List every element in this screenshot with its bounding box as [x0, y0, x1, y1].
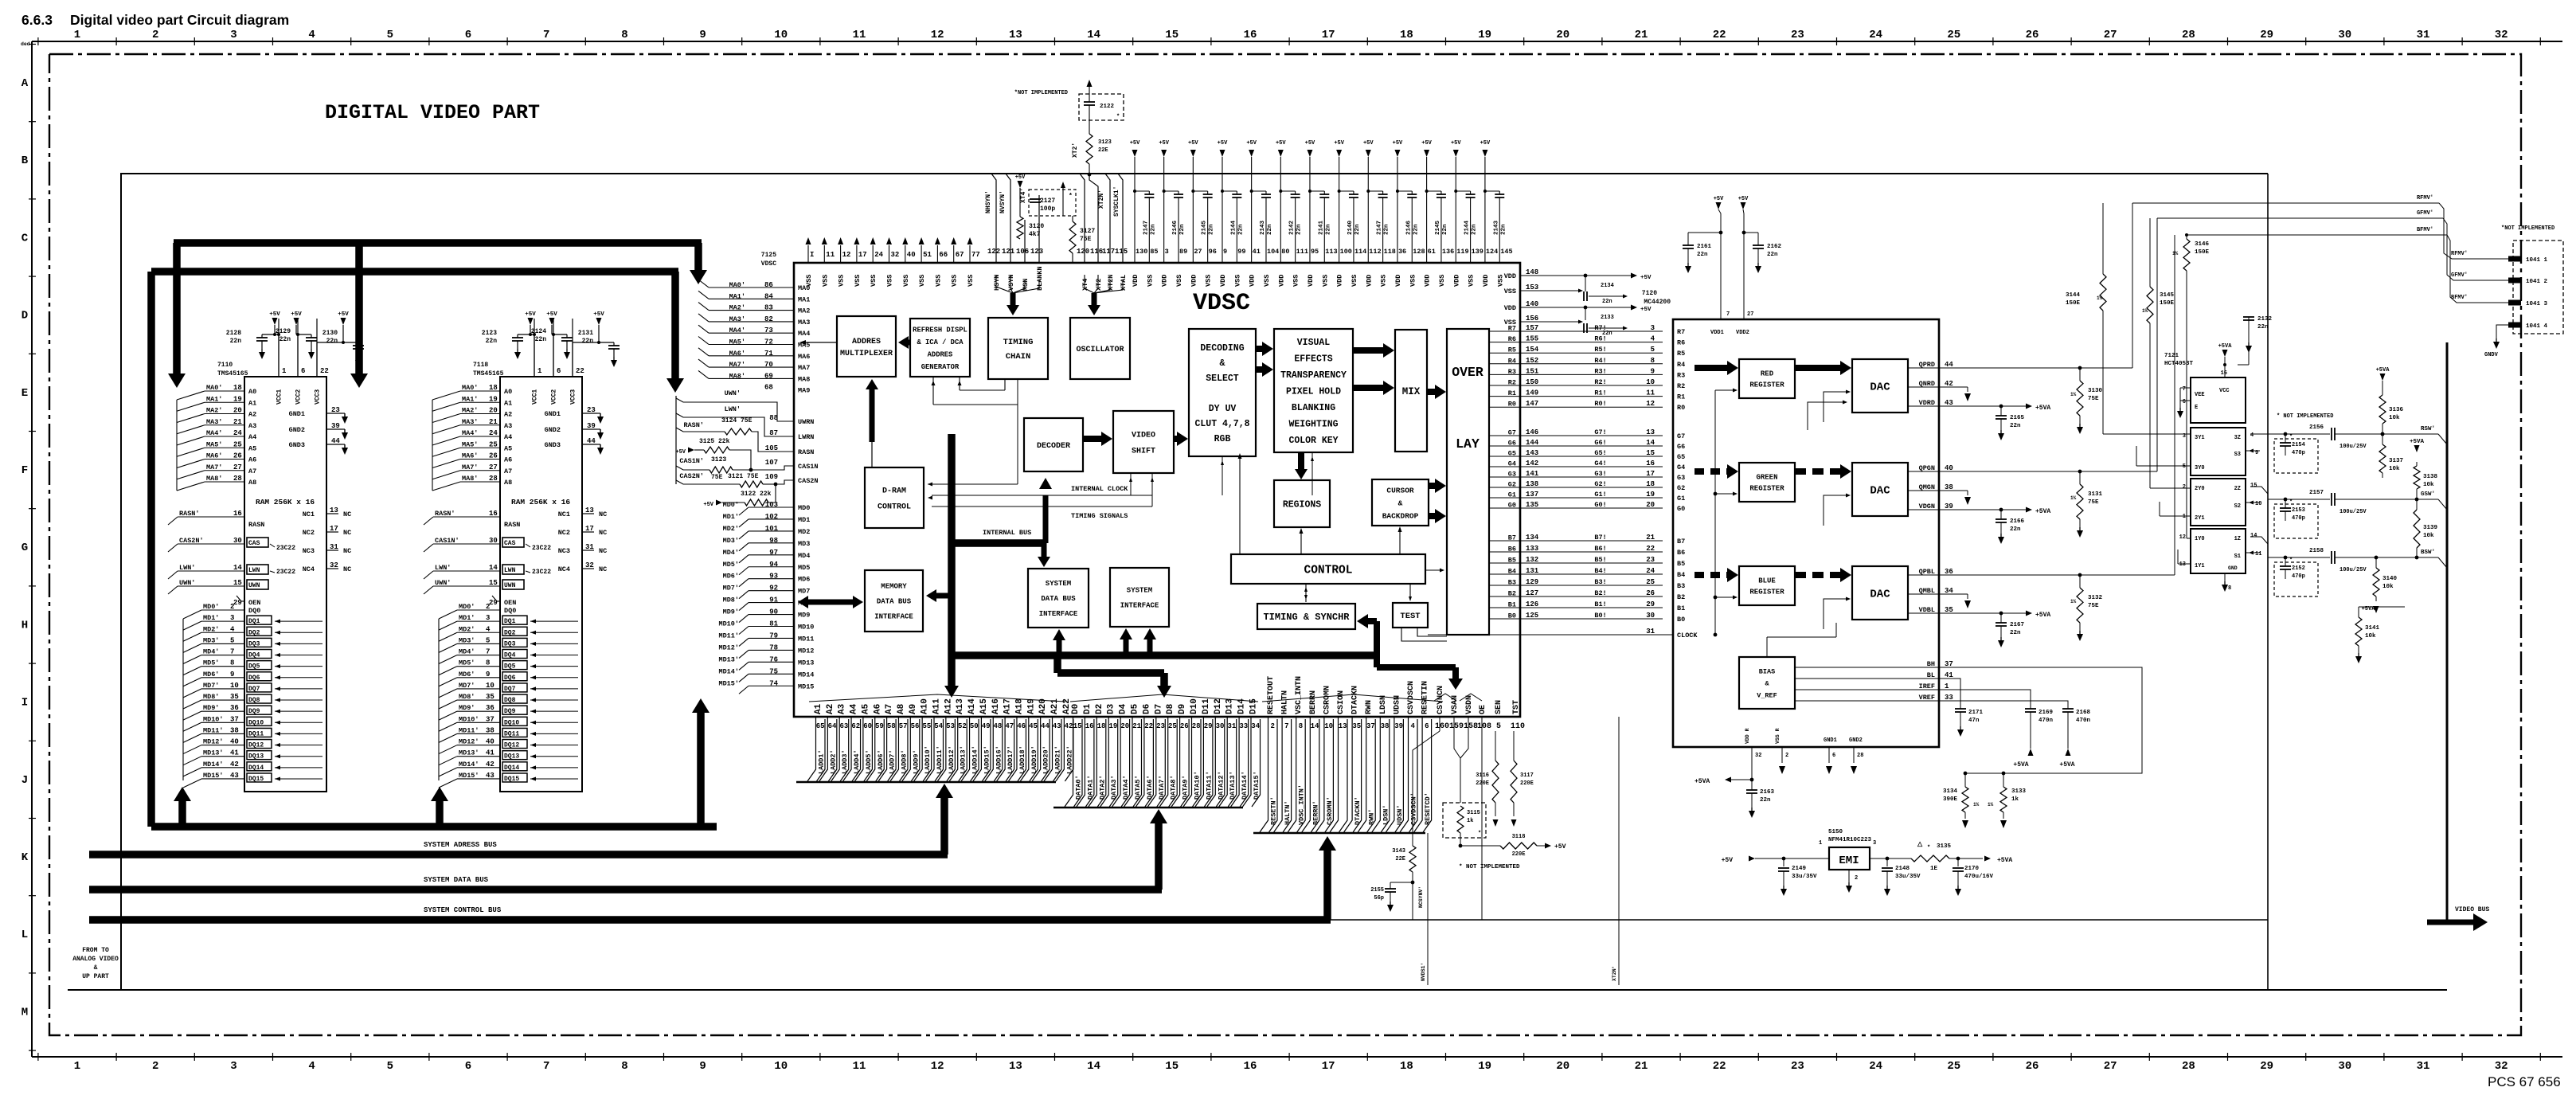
svg-text:68: 68	[764, 384, 773, 392]
svg-text:22E: 22E	[1395, 856, 1405, 862]
wire blue reg clock	[1714, 596, 1738, 600]
svg-text:VCC1: VCC1	[532, 389, 539, 405]
svg-text:G2!: G2!	[1594, 480, 1606, 488]
svg-text:OE: OE	[1479, 705, 1487, 714]
svg-text:MA5': MA5'	[206, 440, 222, 448]
caption DIGITAL VIDEO PART	[325, 101, 540, 124]
svg-text:OEN: OEN	[504, 599, 516, 607]
MC44200 right pins G	[1908, 464, 1953, 510]
svg-text:2147: 2147	[1143, 221, 1149, 235]
svg-text:3121 75E: 3121 75E	[728, 473, 759, 480]
svg-text:26: 26	[1180, 722, 1189, 730]
svg-text:D7: D7	[1154, 704, 1163, 714]
svg-text:17: 17	[585, 525, 594, 533]
svg-text:1041 1: 1041 1	[2526, 257, 2548, 264]
svg-text:VSS: VSS	[967, 275, 975, 287]
svg-text:DQ12: DQ12	[504, 742, 519, 749]
svg-text:LADD14': LADD14'	[971, 745, 979, 774]
svg-text:6: 6	[1425, 722, 1429, 730]
svg-text:MA2: MA2	[798, 307, 810, 315]
arrow oscillator feed	[1085, 275, 1123, 315]
svg-text:VDD: VDD	[1249, 275, 1257, 287]
svg-text:R6!: R6!	[1594, 335, 1606, 343]
svg-text:DATA3': DATA3'	[1110, 775, 1118, 800]
wire green reg clock	[1714, 492, 1738, 496]
svg-text:I: I	[810, 251, 814, 259]
svg-text:51: 51	[923, 251, 932, 259]
svg-text:B3: B3	[1677, 582, 1685, 590]
svg-text:DQ14: DQ14	[504, 765, 519, 772]
svg-text:BIAS: BIAS	[1759, 667, 1775, 675]
svg-text:VCC2: VCC2	[295, 389, 303, 405]
brace VSAN VSDN	[1434, 694, 1482, 701]
svg-text:GND2: GND2	[1849, 737, 1863, 744]
svg-text:MD4: MD4	[798, 552, 810, 560]
svg-text:BLUE: BLUE	[1758, 577, 1776, 585]
svg-text:VSS: VSS	[902, 275, 910, 287]
svg-text:VSS: VSS	[1351, 275, 1358, 287]
svg-text:NC: NC	[599, 565, 607, 573]
svg-text:+5VA: +5VA	[2035, 508, 2050, 515]
svg-text:+5V: +5V	[338, 311, 349, 318]
wire red reg clock	[1714, 389, 1738, 637]
svg-text:119: 119	[1456, 248, 1468, 256]
svg-text:116: 116	[1090, 248, 1103, 256]
svg-text:2: 2	[2183, 484, 2186, 491]
svg-text:+5VA: +5VA	[1695, 778, 1710, 785]
resistor 3141 10k	[2355, 557, 2405, 663]
svg-text:VDD: VDD	[1482, 275, 1490, 287]
svg-text:10k: 10k	[2365, 633, 2376, 639]
svg-text:K: K	[21, 851, 29, 864]
svg-text:9: 9	[1223, 248, 1227, 256]
svg-text:3134: 3134	[1943, 788, 1958, 795]
bus MD drop control fan	[666, 272, 684, 393]
svg-text:5: 5	[230, 636, 234, 644]
svg-text:MD0': MD0'	[203, 603, 219, 611]
svg-text:DATA7': DATA7'	[1158, 775, 1166, 800]
svg-text:26: 26	[2026, 1060, 2039, 1073]
svg-text:20: 20	[233, 407, 242, 415]
svg-text:VDD: VDD	[1307, 275, 1315, 287]
svg-text:1%: 1%	[2172, 251, 2179, 256]
svg-text:LADD2': LADD2'	[829, 749, 837, 774]
svg-text:1%: 1%	[2070, 495, 2077, 501]
svg-text:LAY: LAY	[1456, 436, 1480, 452]
arrow refresh to addres mux	[898, 336, 910, 349]
svg-text:22n: 22n	[1237, 224, 1244, 235]
svg-text:INTERFACE: INTERFACE	[1120, 602, 1159, 610]
internal bus	[944, 434, 1052, 698]
IC 7121 HCT4053T	[2164, 353, 2194, 367]
supply +5V right	[1738, 196, 1749, 213]
svg-text:3144: 3144	[2066, 292, 2081, 299]
svg-text:1k: 1k	[2011, 796, 2019, 803]
arrow bus to sysif 1	[1120, 628, 1132, 655]
svg-text:35: 35	[486, 693, 494, 701]
svg-text:RASN: RASN	[248, 521, 264, 529]
svg-text:CSVDSCN': CSVDSCN'	[1410, 792, 1418, 825]
supply +5V left	[1714, 196, 1724, 213]
mux second inputs	[2136, 446, 2191, 564]
svg-text:RASN: RASN	[798, 448, 814, 456]
svg-text:20: 20	[1556, 29, 1569, 41]
svg-text:20: 20	[1120, 722, 1129, 730]
svg-text:G0!: G0!	[1594, 501, 1606, 509]
svg-text:112: 112	[1369, 248, 1381, 256]
svg-text:DATA8': DATA8'	[1170, 775, 1178, 800]
svg-text:C: C	[21, 232, 29, 244]
svg-text:22n: 22n	[1760, 797, 1771, 804]
svg-text:XTAL: XTAL	[1120, 275, 1128, 291]
svg-text:35: 35	[1352, 722, 1361, 730]
svg-text:G3: G3	[1677, 474, 1685, 482]
svg-text:G0: G0	[1677, 505, 1685, 513]
svg-text:LWN: LWN	[504, 567, 516, 574]
arrow blue reg to dac dashed	[1795, 568, 1851, 582]
svg-text:9: 9	[1651, 367, 1655, 375]
svg-text:GENERATOR: GENERATOR	[921, 363, 960, 371]
svg-text:1041 3: 1041 3	[2526, 301, 2548, 307]
svg-text:32: 32	[2495, 29, 2508, 41]
svg-text:LADD6': LADD6'	[877, 749, 885, 774]
svg-text:VDD: VDD	[1132, 275, 1139, 287]
svg-text:MA8: MA8	[798, 375, 810, 383]
svg-text:A2: A2	[826, 704, 835, 714]
svg-text:GND3: GND3	[545, 441, 561, 449]
svg-text:7110: 7110	[217, 362, 233, 369]
wire control bus thin extension	[1331, 919, 2268, 921]
svg-text:MD12': MD12'	[203, 738, 224, 746]
arrow timing chain feed	[996, 275, 1039, 315]
svg-text:11: 11	[826, 251, 835, 259]
capacitor 2149 33u/35V	[1778, 857, 1817, 896]
svg-text:M: M	[21, 1006, 28, 1019]
svg-text:B4: B4	[1677, 571, 1685, 579]
svg-text:159: 159	[1449, 722, 1464, 731]
svg-text:+5V: +5V	[1159, 140, 1169, 147]
bus MA drop RAM2	[350, 243, 368, 388]
svg-text:+5VA: +5VA	[2059, 761, 2074, 769]
HCT4053T mux2 box	[2183, 479, 2262, 526]
svg-text:DATA4': DATA4'	[1122, 775, 1130, 800]
resistor 3130 75E	[2070, 366, 2103, 434]
svg-text:22E: 22E	[1098, 147, 1108, 154]
svg-text:22: 22	[1713, 1060, 1726, 1073]
svg-text:A7: A7	[504, 467, 512, 475]
supply +5VA vddr	[1695, 777, 1753, 786]
svg-text:29: 29	[1204, 722, 1213, 730]
svg-text:7: 7	[543, 1060, 549, 1073]
svg-text:38: 38	[230, 726, 239, 734]
svg-text:60: 60	[863, 722, 872, 730]
svg-text:GFMV': GFMV'	[2451, 272, 2468, 279]
svg-text:4: 4	[486, 625, 491, 633]
svg-text:GND1: GND1	[289, 410, 305, 418]
svg-text:41: 41	[486, 749, 494, 757]
svg-text:NC3: NC3	[558, 547, 570, 555]
svg-text:15: 15	[489, 579, 498, 587]
svg-text:VSS: VSS	[1438, 275, 1446, 287]
svg-text:RESETCD': RESETCD'	[1424, 792, 1432, 825]
arrow mix to overlay	[1427, 385, 1446, 399]
svg-text:28: 28	[1192, 722, 1201, 730]
svg-text:TMS45165: TMS45165	[217, 370, 248, 377]
svg-text:UWRN: UWRN	[798, 418, 814, 426]
svg-text:DQ11: DQ11	[248, 730, 264, 737]
svg-text:22n: 22n	[1209, 224, 1215, 235]
svg-text:DQ14: DQ14	[248, 765, 264, 772]
svg-text:CAS2N': CAS2N'	[179, 537, 204, 545]
svg-text:MC44200: MC44200	[1644, 299, 1671, 306]
bus MD left vertical	[147, 272, 155, 827]
svg-text:MD4': MD4'	[723, 549, 739, 557]
block SYSTEM DATA BUS INTERFACE	[1028, 569, 1089, 628]
svg-text:23C22: 23C22	[276, 545, 295, 552]
svg-text:115: 115	[1115, 248, 1128, 256]
svg-text:OEN: OEN	[248, 599, 260, 607]
svg-text:VSS: VSS	[838, 275, 846, 287]
svg-text:DATA1': DATA1'	[1086, 775, 1094, 800]
svg-text:+5VA: +5VA	[2410, 439, 2425, 445]
svg-text:MA3': MA3'	[462, 418, 478, 426]
capacitor 2166 22n	[1996, 510, 2025, 544]
svg-text:DAC: DAC	[1870, 588, 1890, 600]
resistor 3121 75E	[676, 472, 794, 487]
RAM 7118 TMS45165	[473, 319, 607, 792]
svg-text:18: 18	[1646, 480, 1655, 488]
wire test outputs	[1401, 628, 1447, 641]
svg-text:A6: A6	[504, 456, 512, 464]
svg-text:MD2: MD2	[798, 528, 810, 536]
svg-text:+5VA: +5VA	[2035, 612, 2050, 619]
svg-text:VDSC: VDSC	[1193, 290, 1250, 317]
svg-text:D14: D14	[1237, 698, 1247, 714]
wire RFMV	[2132, 195, 2508, 259]
svg-text:6: 6	[301, 367, 305, 375]
svg-text:13: 13	[330, 506, 338, 514]
svg-text:75E: 75E	[2088, 499, 2099, 506]
svg-text:G1: G1	[1677, 495, 1685, 503]
svg-text:150E: 150E	[2195, 249, 2210, 256]
resistor 3135 1E	[1911, 841, 1983, 872]
svg-text:RASN': RASN'	[683, 421, 704, 429]
supply +5VA emi out	[1984, 856, 2012, 865]
wire visual clocks	[1290, 452, 1314, 495]
svg-text:B2: B2	[1677, 593, 1685, 601]
wire LWN	[676, 405, 794, 436]
svg-text:7: 7	[543, 29, 549, 41]
svg-text:3: 3	[1651, 324, 1655, 332]
svg-text:46: 46	[1017, 722, 1026, 730]
svg-text:2: 2	[230, 603, 234, 611]
bus system control	[89, 916, 1331, 924]
svg-text:75E: 75E	[2088, 603, 2099, 609]
svg-text:+5V: +5V	[1722, 857, 1734, 864]
svg-text:2131: 2131	[578, 330, 593, 337]
svg-text:43: 43	[486, 772, 494, 780]
svg-text:64: 64	[828, 722, 837, 730]
wire BSW row	[2250, 537, 2447, 573]
svg-text:LADD10': LADD10'	[924, 745, 932, 774]
svg-text:30: 30	[1646, 612, 1655, 620]
svg-text:D3: D3	[1107, 703, 1116, 714]
DAC red	[1852, 359, 1908, 413]
svg-text:MD0': MD0'	[723, 501, 739, 509]
svg-text:3125 22k: 3125 22k	[699, 438, 730, 445]
svg-text:12: 12	[1646, 400, 1655, 408]
svg-text:DATA14': DATA14'	[1241, 771, 1249, 800]
svg-text:LWN': LWN'	[725, 405, 741, 413]
svg-text:VDD: VDD	[1452, 275, 1460, 287]
arrow colorkey to regions	[1295, 452, 1308, 479]
svg-text:D13: D13	[1225, 698, 1235, 714]
svg-text:+5V: +5V	[1188, 140, 1198, 147]
svg-text:58: 58	[887, 722, 896, 730]
svg-text:11: 11	[1646, 389, 1655, 397]
svg-text:22: 22	[320, 367, 329, 375]
svg-text:20: 20	[1646, 501, 1655, 509]
svg-text:14: 14	[1087, 29, 1100, 41]
wire VDBL supply	[1939, 611, 2050, 620]
svg-text:UDSN': UDSN'	[1396, 804, 1404, 825]
svg-text:BSW': BSW'	[2421, 549, 2435, 556]
svg-text:160: 160	[1435, 722, 1449, 731]
svg-text:+5V: +5V	[1130, 140, 1140, 147]
svg-text:DQ1: DQ1	[248, 618, 260, 625]
svg-text:GFMV': GFMV'	[2417, 210, 2433, 217]
wire enclosure box	[121, 174, 2268, 990]
svg-text:18: 18	[1097, 722, 1106, 730]
svg-text:3123: 3123	[711, 456, 726, 463]
svg-text:DQ9: DQ9	[248, 708, 260, 715]
svg-text:2146: 2146	[1172, 220, 1179, 235]
svg-text:LDSN: LDSN	[1379, 695, 1388, 714]
svg-text:18: 18	[1400, 29, 1413, 41]
svg-text:LADD15': LADD15'	[983, 745, 991, 774]
svg-text:2122: 2122	[1100, 104, 1115, 110]
svg-text:22: 22	[576, 367, 584, 375]
resistor 3131 75E	[2070, 470, 2103, 538]
svg-text:+5V: +5V	[1640, 275, 1652, 281]
svg-text:41: 41	[230, 749, 239, 757]
svg-text:RWN: RWN	[1365, 700, 1374, 714]
svg-text:220E: 220E	[1520, 780, 1534, 787]
svg-text:19: 19	[489, 395, 498, 403]
svg-text:20: 20	[489, 407, 498, 415]
svg-text:19: 19	[233, 395, 242, 403]
svg-text:MD9': MD9'	[459, 704, 475, 712]
svg-text:1: 1	[74, 29, 80, 41]
svg-text:22n: 22n	[2010, 423, 2021, 429]
svg-text:B5!: B5!	[1594, 556, 1606, 564]
svg-text:12: 12	[931, 1060, 944, 1073]
svg-text:D-RAM: D-RAM	[882, 487, 906, 496]
svg-text:MD3': MD3'	[723, 537, 739, 545]
svg-text:RASN': RASN'	[435, 510, 455, 518]
svg-text:34: 34	[1251, 722, 1260, 730]
svg-text:30: 30	[2338, 29, 2351, 41]
VDSC control pins bottom	[1253, 676, 1443, 833]
svg-text:BERRN: BERRN	[1309, 690, 1318, 714]
capacitor 2161 22n	[1683, 231, 1722, 273]
svg-text:22n: 22n	[2010, 526, 2021, 533]
svg-text:VSS: VSS	[1205, 275, 1213, 287]
svg-text:+5V: +5V	[1305, 140, 1315, 147]
svg-text:H: H	[21, 619, 28, 632]
svg-text:MD3: MD3	[798, 540, 810, 548]
svg-text:22n: 22n	[1442, 224, 1448, 235]
svg-text:25: 25	[233, 440, 242, 448]
bus MA address top	[174, 239, 702, 247]
svg-text:220E: 220E	[1476, 780, 1489, 787]
svg-text:GND2: GND2	[545, 426, 561, 434]
supply +5VA 4053	[2218, 343, 2233, 368]
svg-text:MD10': MD10'	[459, 715, 479, 723]
svg-text:MD13': MD13'	[459, 749, 479, 757]
svg-text:16: 16	[2221, 370, 2227, 377]
svg-text:5150: 5150	[1828, 829, 1843, 835]
label SYSTEM CONTROL BUS	[424, 906, 502, 914]
svg-text:LWN: LWN	[248, 567, 260, 574]
svg-text:VCC2: VCC2	[551, 389, 558, 405]
label VDSC	[1193, 290, 1250, 317]
svg-text:27: 27	[233, 463, 242, 471]
svg-text:DQ10: DQ10	[504, 719, 519, 726]
svg-text:R0!: R0!	[1594, 400, 1606, 408]
svg-text:32: 32	[330, 561, 338, 569]
svg-text:2167: 2167	[2010, 622, 2024, 628]
svg-text:A17: A17	[1003, 698, 1013, 714]
svg-text:&: &	[1220, 358, 1225, 369]
svg-text:113: 113	[1325, 248, 1337, 256]
svg-text:+5V: +5V	[269, 311, 280, 318]
svg-text:LADD18': LADD18'	[1018, 745, 1026, 774]
svg-text:49: 49	[982, 722, 991, 730]
svg-text:ANALOG VIDEO: ANALOG VIDEO	[72, 956, 119, 963]
svg-text:DECODER: DECODER	[1037, 442, 1070, 451]
arrow blue bus in dashed	[1695, 568, 1738, 582]
svg-text:DQ10: DQ10	[248, 719, 264, 726]
svg-text:NC4: NC4	[558, 565, 570, 573]
svg-text:2130: 2130	[322, 330, 338, 337]
svg-text:2144: 2144	[1464, 220, 1471, 235]
svg-text:10k: 10k	[2389, 466, 2400, 472]
svg-text:A5: A5	[248, 444, 256, 452]
svg-text:DQ3: DQ3	[248, 640, 260, 647]
HCT4053T mux3 box	[2183, 428, 2258, 475]
svg-text:22n: 22n	[1384, 224, 1390, 235]
svg-text:1: 1	[537, 367, 542, 375]
svg-text:VSS: VSS	[1233, 275, 1241, 287]
svg-text:VCC1: VCC1	[276, 389, 283, 405]
bus MD riser RAM1	[174, 787, 191, 827]
svg-text:NC2: NC2	[558, 529, 570, 537]
svg-text:158: 158	[1464, 722, 1478, 731]
VDSC control pins UWRN LWRN RASN CAS1N CAS2N	[676, 396, 819, 485]
svg-text:25: 25	[1947, 29, 1960, 41]
capacitor 2155 56p	[1370, 882, 1413, 912]
capacitors 2123 2124 2131	[482, 311, 620, 377]
svg-text:D8: D8	[1166, 703, 1175, 714]
svg-text:2134: 2134	[1601, 283, 1614, 289]
svg-text:+5V: +5V	[675, 449, 686, 456]
svg-text:40: 40	[907, 251, 916, 259]
svg-text:UWN': UWN'	[179, 579, 195, 587]
svg-text:23: 23	[1791, 29, 1804, 41]
svg-text:VSS: VSS	[1175, 275, 1183, 287]
svg-text:CURSOR: CURSOR	[1386, 486, 1414, 495]
